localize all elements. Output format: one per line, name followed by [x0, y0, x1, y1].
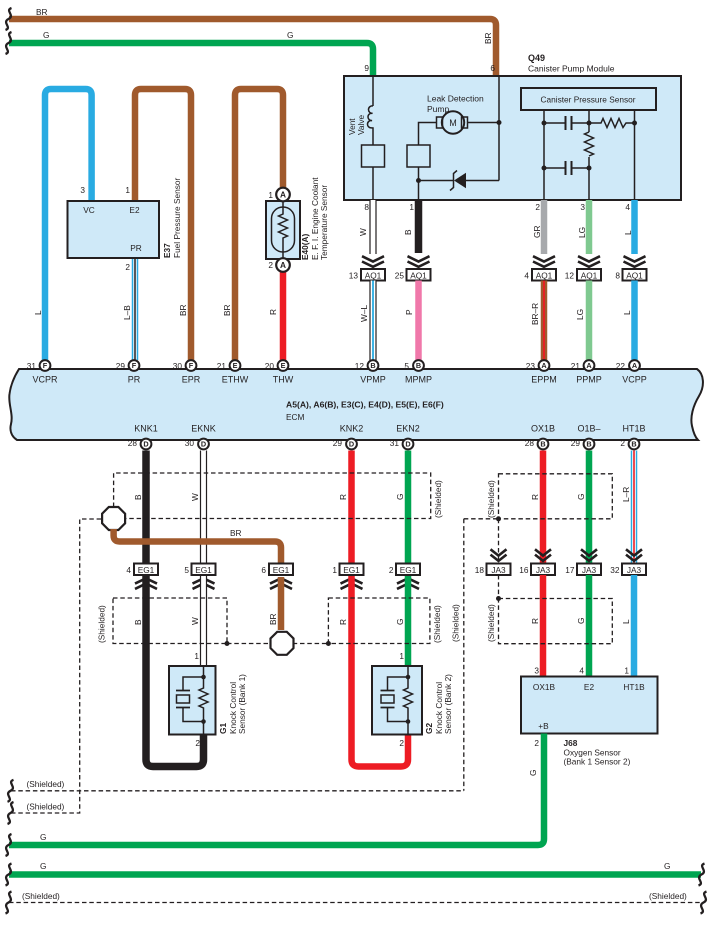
svg-text:2: 2 [620, 438, 625, 448]
svg-text:MPMP: MPMP [405, 374, 432, 384]
ECM pin 30 F EPR [173, 360, 197, 371]
svg-text:G: G [395, 619, 405, 625]
svg-text:4: 4 [126, 565, 131, 575]
vent valve driver square [362, 145, 385, 200]
svg-text:VC: VC [83, 205, 95, 215]
svg-text:23: 23 [526, 361, 536, 371]
shield dashed box knock upper [114, 473, 443, 519]
wire pin 6 internal vertical [498, 77, 500, 181]
svg-text:BR–R: BR–R [530, 303, 540, 325]
wire G bottom rail 2 [9, 861, 701, 875]
wire LG pin3 to AQ1 [577, 200, 589, 254]
svg-text:L–B: L–B [122, 305, 132, 320]
svg-text:G: G [40, 832, 46, 842]
wire BR ETHW to E40 pin1 [222, 89, 283, 360]
svg-text:BR: BR [483, 32, 493, 44]
break symbol top-left BR [6, 8, 12, 30]
pump driver square [407, 145, 430, 167]
svg-text:Canister Pressure Sensor: Canister Pressure Sensor [541, 95, 636, 105]
svg-text:W: W [358, 228, 368, 236]
svg-text:2: 2 [399, 738, 404, 748]
node dot left [225, 641, 230, 646]
node dots pressure sensor [542, 121, 638, 171]
svg-text:A: A [541, 361, 547, 370]
sensor internal vertical pin 2 [543, 110, 545, 200]
wire B EG1 to knock loop [133, 577, 204, 767]
svg-text:D: D [143, 440, 148, 449]
svg-text:HT1B: HT1B [622, 424, 645, 434]
svg-text:B: B [586, 440, 591, 449]
svg-text:30: 30 [173, 361, 183, 371]
shield dashed knock outer drain line 1 [11, 779, 464, 791]
svg-text:AQ1: AQ1 [581, 270, 598, 280]
svg-text:R: R [268, 309, 278, 315]
wire L VCPR to E37 VC [33, 89, 92, 360]
shield dashed link to drain line [464, 518, 499, 520]
shield octagon node 2 [271, 632, 294, 655]
svg-text:29: 29 [333, 438, 343, 448]
svg-text:R: R [338, 619, 348, 625]
connector 12 AQ1 [565, 269, 601, 281]
leak detection pump motor M [427, 94, 484, 134]
svg-text:KNK1: KNK1 [134, 424, 158, 434]
connector 32 JA3 [610, 564, 646, 576]
svg-text:E2: E2 [129, 205, 140, 215]
wire G top horizontal to Q49 pin 9 [9, 30, 373, 76]
svg-text:(Shielded): (Shielded) [486, 480, 496, 518]
zener diode [419, 171, 500, 191]
wire junction down to pin 1 [418, 181, 420, 201]
wire G O1B- to JA3 [576, 451, 589, 564]
wire W EG1 to G1 pin1 [190, 577, 204, 666]
svg-text:Sensor (Bank 2): Sensor (Bank 2) [443, 674, 453, 734]
svg-text:F: F [132, 361, 137, 370]
shield dashed knock outer drain line 2 [11, 519, 101, 813]
shield dashed drain down to JA3 [498, 519, 500, 564]
svg-text:A: A [586, 361, 592, 370]
shield dashed link between lower boxes [227, 643, 328, 645]
wire L-B E37 PR to ECM PR [122, 258, 135, 360]
resistor middle vertical [585, 132, 594, 156]
wire motor left to driver square [419, 123, 437, 146]
svg-text:G: G [287, 30, 293, 40]
connector 8 AQ1 [615, 269, 646, 281]
svg-text:EPPM: EPPM [531, 374, 557, 384]
svg-text:5: 5 [184, 565, 189, 575]
svg-text:6: 6 [261, 565, 266, 575]
svg-text:G: G [40, 861, 46, 871]
break symbol bottom-left shielded rail [6, 892, 12, 914]
connector 4 EG1 [126, 564, 158, 576]
node dot oxygen lower shield [496, 596, 501, 601]
G2 internal resistor [404, 666, 413, 735]
break symbol bottom-left G1 rail [6, 834, 12, 856]
svg-text:D: D [349, 440, 354, 449]
svg-text:BR: BR [268, 613, 278, 625]
svg-text:22: 22 [616, 361, 626, 371]
break symbol bottom-right G2 rail [699, 864, 705, 886]
svg-text:E2: E2 [584, 682, 595, 692]
svg-text:JA3: JA3 [627, 565, 642, 575]
break symbol shielded line 1 [8, 780, 14, 802]
capacitor top row [544, 116, 589, 130]
svg-text:W: W [190, 493, 200, 501]
svg-text:18: 18 [475, 565, 485, 575]
svg-text:J68: J68 [564, 738, 578, 748]
wire G J68 +B down to bottom rail [9, 734, 544, 846]
svg-text:W: W [190, 617, 200, 625]
svg-text:BR: BR [230, 528, 242, 538]
svg-text:3: 3 [580, 202, 585, 212]
ECM pin 30 D EKNK [185, 438, 209, 449]
svg-text:O1B–: O1B– [577, 424, 600, 434]
svg-text:ETHW: ETHW [222, 374, 249, 384]
wire BR EPR to E37 E2 [135, 89, 191, 360]
G1 internal piezo capacitor [176, 675, 206, 724]
svg-text:OX1B: OX1B [531, 424, 555, 434]
svg-text:G2: G2 [424, 723, 434, 734]
coolant temp sensor E40(A) box [266, 177, 329, 260]
svg-text:Sensor (Bank 1): Sensor (Bank 1) [237, 674, 247, 734]
svg-text:E: E [281, 361, 286, 370]
pin labels below module [364, 202, 630, 212]
svg-text:(Shielded): (Shielded) [97, 605, 107, 643]
canister pressure sensor box [521, 88, 656, 110]
svg-text:(Shielded): (Shielded) [451, 604, 461, 642]
svg-text:28: 28 [128, 438, 138, 448]
svg-text:PPMP: PPMP [576, 374, 602, 384]
connector circle E40 pin 1 [268, 188, 289, 202]
svg-text:E40(A): E40(A) [300, 233, 310, 260]
svg-text:E: E [233, 361, 238, 370]
shield dashed box knock lower-left [97, 598, 228, 644]
wire W EKNK to EG1 [190, 451, 204, 578]
svg-text:(Shielded): (Shielded) [27, 802, 65, 812]
svg-text:EG1: EG1 [138, 565, 155, 575]
svg-text:HT1B: HT1B [623, 682, 645, 692]
connector 13 AQ1 [349, 269, 385, 281]
svg-text:B: B [370, 361, 375, 370]
node motor right to pin6 line [468, 120, 502, 125]
svg-text:(Bank 1 Sensor 2): (Bank 1 Sensor 2) [564, 757, 631, 767]
svg-text:B: B [631, 440, 636, 449]
svg-text:2: 2 [195, 738, 200, 748]
svg-text:VCPP: VCPP [622, 374, 647, 384]
shield dashed box oxygen lower [486, 599, 612, 644]
shield dashed box oxygen upper [486, 474, 612, 519]
svg-text:1: 1 [194, 651, 199, 661]
svg-text:Q49: Q49 [528, 53, 545, 63]
wire LG AQ1 to PPMP [575, 281, 589, 361]
svg-text:LG: LG [575, 309, 585, 320]
ECM pin 22 A VCPP [616, 360, 640, 371]
svg-text:A: A [280, 190, 286, 200]
svg-text:(Shielded): (Shielded) [486, 604, 496, 642]
svg-text:9: 9 [364, 63, 369, 73]
ECM pin 28 B OX1B [525, 438, 549, 449]
ECM pin 21 E ETHW [217, 360, 241, 371]
wire B KNK1 to EG1 [133, 451, 146, 578]
svg-text:M: M [449, 118, 457, 128]
svg-text:29: 29 [571, 438, 581, 448]
svg-text:THW: THW [273, 374, 294, 384]
connector 2 EG1 [389, 564, 420, 576]
svg-text:21: 21 [217, 361, 227, 371]
node dot right [326, 641, 331, 646]
ECM band [9, 369, 703, 440]
svg-text:L: L [623, 230, 633, 235]
svg-text:VCPR: VCPR [32, 374, 58, 384]
svg-text:32: 32 [610, 565, 620, 575]
svg-text:JA3: JA3 [536, 565, 551, 575]
vent valve coil and winding [347, 77, 373, 145]
wire BR 6 EG1 to octagon 2 [268, 577, 281, 630]
svg-text:R: R [530, 618, 540, 624]
wire L-R HT1B to JA3 [621, 451, 634, 564]
svg-text:P: P [404, 309, 414, 315]
break symbol top-left G [6, 32, 12, 54]
connector circle E40 pin 2 [268, 258, 289, 272]
svg-text:1: 1 [624, 666, 629, 676]
svg-text:31: 31 [27, 361, 37, 371]
svg-text:28: 28 [525, 438, 535, 448]
knock control sensor G1 box [169, 651, 247, 748]
chevrons below EG1 row pointing up [135, 578, 419, 589]
break symbol shielded line 2 [8, 802, 14, 824]
node dot oxygen upper shield [496, 516, 501, 521]
svg-text:8: 8 [364, 202, 369, 212]
svg-text:OX1B: OX1B [533, 682, 556, 692]
wire R E40 pin2 to THW [268, 270, 283, 360]
svg-text:B: B [133, 494, 143, 500]
shield octagon node 1 [102, 507, 125, 530]
svg-text:3: 3 [80, 185, 85, 195]
wire W-L AQ1 to VPMP [359, 281, 373, 361]
svg-text:BR: BR [222, 304, 232, 316]
svg-text:L: L [622, 310, 632, 315]
svg-text:GR: GR [532, 226, 542, 238]
svg-text:B: B [403, 229, 413, 235]
svg-text:B: B [540, 440, 545, 449]
svg-text:1: 1 [399, 651, 404, 661]
svg-text:G: G [528, 770, 538, 776]
resistor top row horizontal [589, 119, 635, 128]
svg-text:PR: PR [130, 243, 142, 253]
svg-text:12: 12 [355, 361, 365, 371]
svg-text:ECM: ECM [286, 412, 305, 422]
svg-text:Fuel Pressure Sensor: Fuel Pressure Sensor [172, 178, 182, 258]
svg-text:1: 1 [409, 202, 414, 212]
svg-text:17: 17 [565, 565, 575, 575]
shield dashed long drain line [451, 519, 464, 791]
capacitor bottom row [544, 161, 589, 175]
svg-text:(Shielded): (Shielded) [649, 891, 687, 901]
ECM pin 21 A PPMP [571, 360, 595, 371]
wire GR pin2 to AQ1 [532, 200, 544, 254]
svg-text:5: 5 [404, 361, 409, 371]
ECM top pin names [32, 374, 646, 384]
svg-text:16: 16 [519, 565, 529, 575]
svg-text:Leak Detection: Leak Detection [427, 94, 484, 104]
G1 internal resistor [199, 666, 208, 735]
svg-text:20: 20 [265, 361, 275, 371]
wire BR shield drain octagon to 6 EG1 [114, 528, 281, 563]
svg-text:G1: G1 [218, 723, 228, 734]
wire square down to junction [418, 167, 420, 181]
svg-text:1: 1 [125, 185, 130, 195]
wire BR-R AQ1 to EPPM [530, 281, 544, 361]
svg-text:G: G [664, 861, 670, 871]
svg-text:21: 21 [571, 361, 581, 371]
shield dashed bottom rail [9, 891, 703, 903]
svg-text:AQ1: AQ1 [365, 270, 382, 280]
svg-text:13: 13 [349, 270, 359, 280]
connector 5 EG1 [184, 564, 215, 576]
ECM pin 31 D EKN2 [390, 438, 414, 449]
svg-text:2: 2 [268, 260, 273, 270]
wire P AQ1 to MPMP [404, 281, 419, 361]
svg-text:(Shielded): (Shielded) [22, 891, 60, 901]
wire R KNK2 to EG1 [338, 451, 352, 578]
connector 6 EG1 [261, 564, 293, 576]
svg-text:W–L: W–L [359, 305, 369, 322]
svg-text:EG1: EG1 [400, 565, 417, 575]
svg-text:EG1: EG1 [273, 565, 290, 575]
svg-text:A5(A), A6(B), E3(C), E4(D), E5: A5(A), A6(B), E3(C), E4(D), E5(E), E6(F) [286, 400, 444, 410]
knock control sensor G2 box [372, 651, 453, 748]
svg-text:G: G [576, 494, 586, 500]
svg-text:F: F [189, 361, 194, 370]
svg-text:G: G [576, 618, 586, 624]
svg-text:EKNK: EKNK [191, 424, 216, 434]
wire L AQ1 to VCPP [622, 281, 635, 361]
svg-text:R: R [530, 494, 540, 500]
G2 internal piezo capacitor [381, 675, 411, 724]
svg-text:G: G [43, 30, 49, 40]
svg-text:12: 12 [565, 270, 575, 280]
svg-text:BR: BR [36, 7, 48, 17]
ECM pin 29 F PR [116, 360, 140, 371]
svg-text:4: 4 [524, 270, 529, 280]
svg-text:A: A [280, 260, 286, 270]
break symbol bottom-right shielded rail [701, 892, 707, 914]
oxygen sensor J68 box [521, 666, 658, 767]
connector 25 AQ1 [395, 269, 431, 281]
svg-text:L: L [621, 619, 631, 624]
svg-text:EG1: EG1 [343, 565, 360, 575]
svg-text:(Shielded): (Shielded) [27, 779, 65, 789]
svg-text:G: G [395, 494, 405, 500]
wire G EKN2 to EG1 [395, 451, 408, 578]
svg-text:1: 1 [268, 190, 273, 200]
svg-text:31: 31 [390, 438, 400, 448]
svg-text:L–R: L–R [621, 487, 631, 502]
connector 16 JA3 [519, 564, 555, 576]
wire R OX1B to JA3 [530, 451, 543, 564]
shield dashed box knock lower-right [328, 598, 442, 644]
svg-text:Valve: Valve [356, 114, 366, 135]
svg-text:BR: BR [178, 304, 188, 316]
wire BR top horizontal to Q49 pin 6 [9, 7, 496, 76]
wire W pin8 to AQ1 [358, 200, 373, 254]
svg-text:AQ1: AQ1 [410, 270, 427, 280]
wire G EG1 to G2 pin1 [395, 577, 408, 666]
svg-text:Temperature Sensor: Temperature Sensor [319, 185, 329, 260]
svg-text:VPMP: VPMP [360, 374, 386, 384]
ECM pin 28 D KNK1 [128, 438, 152, 449]
connector 18 JA3 [475, 564, 511, 576]
wire R JA3 to J68 OX1B [530, 575, 543, 677]
svg-text:F: F [43, 361, 48, 370]
svg-text:Canister Pump Module: Canister Pump Module [528, 64, 615, 74]
svg-text:(Shielded): (Shielded) [432, 605, 442, 643]
node junction pump/zener [416, 178, 421, 183]
svg-text:EG1: EG1 [195, 565, 212, 575]
svg-text:D: D [201, 440, 206, 449]
connector 17 JA3 [565, 564, 601, 576]
ECM pin 29 B O1B- [571, 438, 595, 449]
svg-text:6: 6 [490, 63, 495, 73]
fuel pressure sensor E37 box [68, 178, 183, 272]
svg-text:AQ1: AQ1 [626, 270, 643, 280]
ECM pin 29 D KNK2 [333, 438, 357, 449]
svg-text:EPR: EPR [182, 374, 201, 384]
svg-text:+B: +B [538, 721, 549, 731]
shield dashed drain JA3 to lower box [498, 575, 500, 599]
ECM pin 31 F VCPR [27, 360, 51, 371]
wire L pin4 to AQ1 [623, 200, 635, 254]
svg-text:KNK2: KNK2 [340, 424, 364, 434]
svg-text:AQ1: AQ1 [536, 270, 553, 280]
chevrons into JA3 row [491, 549, 643, 561]
svg-text:E37: E37 [162, 243, 172, 258]
svg-text:EKN2: EKN2 [396, 424, 420, 434]
svg-text:R: R [338, 494, 348, 500]
svg-text:LG: LG [577, 227, 587, 238]
ECM pin 12 B VPMP [355, 360, 379, 371]
svg-text:2: 2 [534, 738, 539, 748]
svg-text:4: 4 [625, 202, 630, 212]
svg-text:3: 3 [534, 666, 539, 676]
ECM pin 20 E THW [265, 360, 289, 371]
svg-text:L: L [33, 310, 43, 315]
svg-text:D: D [405, 440, 410, 449]
svg-text:1: 1 [332, 565, 337, 575]
connector 1 EG1 [332, 564, 363, 576]
svg-text:4: 4 [579, 666, 584, 676]
svg-text:(Shielded): (Shielded) [433, 480, 443, 518]
svg-text:25: 25 [395, 270, 405, 280]
sensor internal vertical pin 4 [634, 110, 636, 200]
canister pump module Q49 box [344, 53, 681, 200]
svg-text:B: B [416, 361, 421, 370]
wire R EG1 to knock loop 2 [338, 577, 408, 767]
svg-text:29: 29 [116, 361, 126, 371]
svg-text:B: B [133, 619, 143, 625]
svg-text:2: 2 [535, 202, 540, 212]
break symbol bottom-left G2 rail [6, 864, 12, 886]
svg-text:30: 30 [185, 438, 195, 448]
ECM pin 5 B MPMP [404, 360, 424, 371]
sensor internal vertical pin 3 [588, 110, 590, 132]
wire G JA3 to J68 E2 [576, 575, 589, 677]
svg-text:JA3: JA3 [491, 565, 506, 575]
svg-text:A: A [632, 361, 638, 370]
ECM pin 2 B HT1B [620, 438, 639, 449]
svg-text:2: 2 [125, 262, 130, 272]
svg-text:2: 2 [389, 565, 394, 575]
ECM bottom pin names [134, 424, 645, 434]
